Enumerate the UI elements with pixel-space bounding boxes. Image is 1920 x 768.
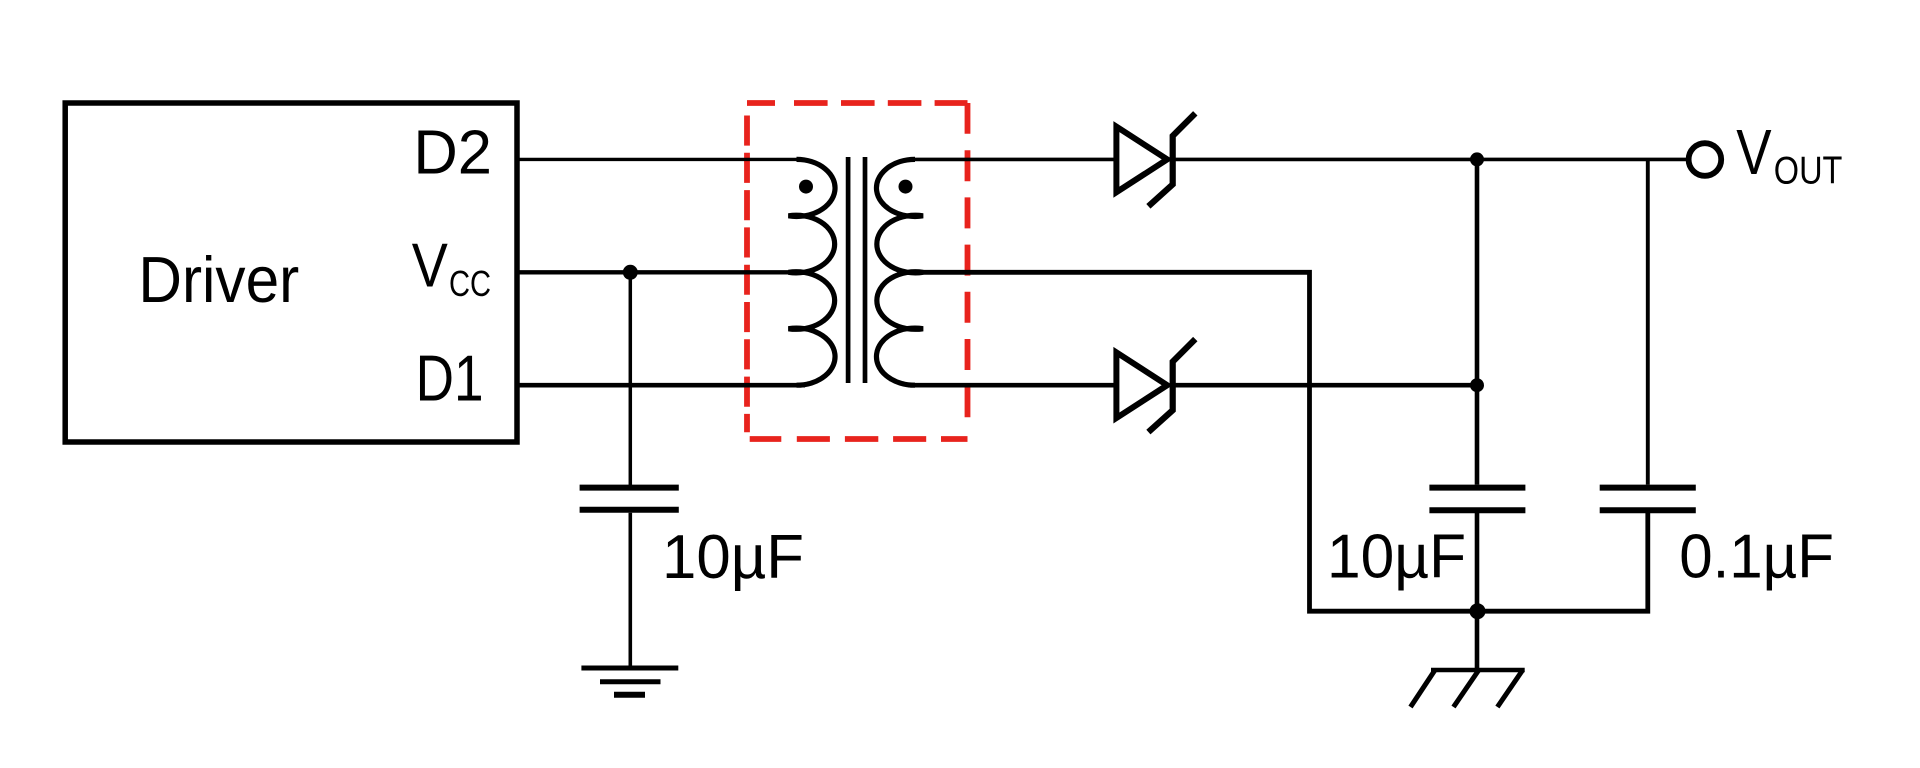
wire secondary center tap to bottom rail [923, 272, 1648, 611]
diode D4 triangle [1116, 352, 1167, 418]
svg-text:10µF: 10µF [662, 523, 804, 592]
node Vcc junction [623, 265, 638, 280]
svg-text:V: V [412, 231, 449, 300]
svg-text:0.1µF: 0.1µF [1679, 523, 1834, 592]
label Vout [1736, 116, 1842, 192]
svg-text:OUT: OUT [1774, 149, 1843, 192]
wire diode D3 to Vout rail [1173, 158, 1686, 162]
wire Vcc to primary center tap [517, 270, 789, 274]
wire C2 to bottom junction and ground [1475, 513, 1480, 670]
terminal Vout circle [1689, 143, 1722, 176]
svg-text:D2: D2 [413, 119, 492, 188]
transformer T1 red dashed boundary [747, 103, 968, 439]
wire 0.1uF branch from Vout rail [1646, 159, 1650, 484]
node bottom rail junction [1470, 603, 1486, 619]
capacitor C2 10uF plates [1429, 488, 1525, 511]
wire C1 to ground [628, 513, 632, 668]
capacitor C3 0.1uF plates [1600, 488, 1696, 511]
wire secondary bottom to diode D4 [908, 383, 1114, 388]
wire D2 to transformer primary [517, 158, 805, 161]
wire D1 to transformer primary [517, 383, 805, 388]
primary polarity dot [799, 180, 813, 194]
wire right rail down to C2 [1475, 159, 1480, 484]
transformer secondary winding [876, 159, 923, 385]
ground chassis symbol [1411, 670, 1525, 707]
svg-text:V: V [1736, 116, 1772, 188]
diode D3 triangle [1116, 127, 1167, 193]
node top rail junction [1470, 152, 1484, 166]
svg-text:Driver: Driver [138, 243, 299, 316]
svg-text:CC: CC [449, 263, 491, 304]
diode D3 cathode bar with hooks [1148, 113, 1195, 206]
transformer core [848, 157, 865, 383]
wire diode D4 to right rail [1173, 383, 1477, 388]
transformer primary winding [789, 159, 836, 385]
wire Vcc down to C1 [629, 272, 633, 485]
ground earth symbol [581, 668, 678, 695]
capacitor C1 10uF plates [580, 488, 679, 510]
pin label Vcc [412, 231, 491, 304]
wire secondary top to diode D3 [908, 158, 1114, 162]
diode D4 cathode bar with hooks [1148, 339, 1195, 432]
secondary polarity dot [899, 180, 913, 194]
svg-text:10µF: 10µF [1327, 523, 1466, 592]
node diode D4 output junction [1470, 378, 1484, 392]
driver box U1 [65, 103, 517, 442]
svg-text:D1: D1 [416, 341, 484, 414]
